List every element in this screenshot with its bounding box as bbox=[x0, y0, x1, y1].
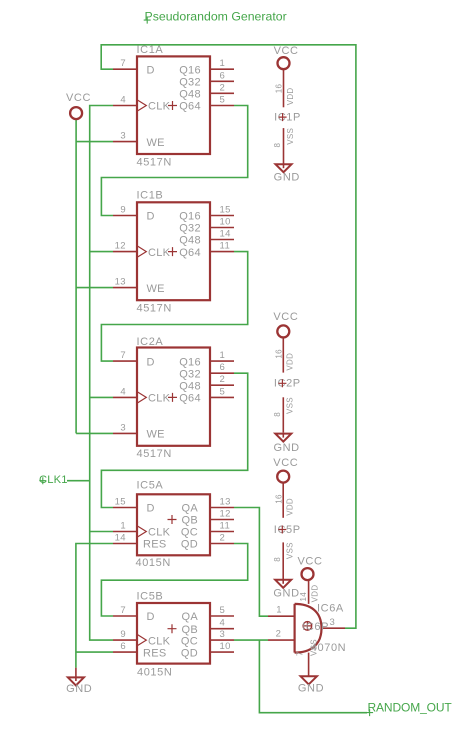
svg-text:6: 6 bbox=[220, 362, 226, 373]
svg-text:QC: QC bbox=[181, 527, 198, 539]
svg-text:16: 16 bbox=[274, 494, 283, 504]
IC5A pin 15 (D) bbox=[113, 497, 155, 515]
svg-text:VDD: VDD bbox=[286, 498, 295, 516]
svg-text:QC: QC bbox=[181, 635, 198, 647]
svg-text:Q64: Q64 bbox=[179, 247, 201, 259]
wire CLK net rail with branches bbox=[67, 106, 113, 641]
wire IC2A Q32 to IC5A D bbox=[101, 373, 247, 507]
svg-text:2: 2 bbox=[220, 82, 226, 93]
svg-text:QA: QA bbox=[182, 611, 199, 623]
IC1B pin 12 (CLK) bbox=[113, 241, 171, 259]
svg-text:13: 13 bbox=[220, 497, 231, 508]
IC6A value label 4070N bbox=[311, 642, 346, 654]
IC1A pin 6 (Q32) bbox=[179, 70, 234, 88]
power gate IC1P pin 16 (VDD) bbox=[275, 70, 295, 108]
svg-text:VCC: VCC bbox=[66, 92, 91, 104]
svg-text:3: 3 bbox=[220, 629, 226, 640]
IC2A name label bbox=[137, 336, 164, 348]
GND symbol (left rail) bbox=[66, 668, 92, 695]
IC6A pin 1 (input) bbox=[268, 605, 295, 617]
power gate IC5P pin 16 (VDD) bbox=[274, 483, 294, 518]
svg-text:RANDOM_OUT: RANDOM_OUT bbox=[368, 701, 453, 715]
svg-text:4517N: 4517N bbox=[137, 157, 172, 169]
svg-text:WE: WE bbox=[147, 283, 165, 295]
svg-text:VSS: VSS bbox=[286, 397, 295, 414]
svg-text:CLK: CLK bbox=[148, 101, 171, 113]
svg-text:5: 5 bbox=[220, 95, 226, 106]
GND symbol for IC1P bbox=[274, 164, 300, 184]
svg-text:11: 11 bbox=[220, 521, 231, 532]
svg-text:8: 8 bbox=[273, 557, 282, 562]
net label CLK1 bbox=[39, 474, 68, 486]
IC5A name label bbox=[137, 480, 164, 492]
svg-text:9: 9 bbox=[120, 205, 126, 216]
IC6A pin 7 (VSS) bbox=[295, 639, 318, 676]
IC5B pin 4 (QB) bbox=[182, 618, 235, 636]
svg-text:1: 1 bbox=[220, 58, 226, 69]
svg-text:Q16: Q16 bbox=[179, 64, 201, 76]
IC1A pin 2 (Q48) bbox=[179, 82, 234, 100]
4517 shift register IC1A: body bbox=[137, 56, 210, 154]
4517 shift register IC1B: body bbox=[137, 202, 210, 300]
svg-text:3: 3 bbox=[330, 617, 336, 628]
svg-text:D: D bbox=[147, 611, 155, 623]
IC5B pin 9 (CLK) bbox=[113, 629, 171, 647]
svg-text:2: 2 bbox=[220, 374, 226, 385]
wire IC1A Q64 to IC1B D bbox=[101, 106, 247, 216]
svg-text:15: 15 bbox=[220, 205, 231, 216]
svg-text:GND: GND bbox=[66, 683, 92, 695]
svg-text:IC1B: IC1B bbox=[137, 190, 164, 202]
power gate IC2P pin 8 (VSS) bbox=[273, 397, 295, 432]
svg-text:QD: QD bbox=[181, 539, 198, 551]
svg-text:14: 14 bbox=[115, 533, 126, 544]
svg-text:5: 5 bbox=[220, 605, 226, 616]
power gate IC1P name label bbox=[274, 111, 301, 123]
svg-text:IC1A: IC1A bbox=[137, 44, 164, 56]
svg-text:QB: QB bbox=[182, 515, 199, 527]
supply VCC for IC1P bbox=[274, 45, 299, 69]
svg-text:1: 1 bbox=[220, 350, 226, 361]
power gate IC5P name label bbox=[274, 524, 301, 536]
svg-text:7: 7 bbox=[120, 605, 126, 616]
svg-text:8: 8 bbox=[273, 143, 282, 148]
svg-text:16: 16 bbox=[275, 349, 284, 359]
svg-text:1: 1 bbox=[120, 521, 126, 532]
supply VCC for IC5P bbox=[273, 457, 298, 483]
svg-text:4015N: 4015N bbox=[137, 667, 172, 679]
svg-text:4: 4 bbox=[220, 618, 226, 629]
wire VCC rail left vertical bbox=[76, 120, 113, 434]
svg-text:Q32: Q32 bbox=[179, 223, 201, 235]
svg-text:13: 13 bbox=[115, 277, 126, 288]
svg-text:10: 10 bbox=[220, 641, 231, 652]
svg-text:IC5B: IC5B bbox=[137, 591, 164, 603]
IC2A pin 4 (CLK) bbox=[113, 386, 171, 404]
svg-text:Q64: Q64 bbox=[179, 393, 201, 405]
svg-text:GND: GND bbox=[273, 587, 299, 599]
svg-text:D: D bbox=[147, 64, 155, 76]
IC2A pin 7 (D) bbox=[113, 350, 155, 368]
svg-text:CLK: CLK bbox=[148, 393, 171, 405]
svg-text:GND: GND bbox=[273, 442, 299, 454]
svg-text:Q16: Q16 bbox=[179, 356, 201, 368]
IC5A pin 12 (QB) bbox=[182, 509, 235, 527]
svg-text:IC6A: IC6A bbox=[317, 603, 344, 615]
svg-text:IC6P: IC6P bbox=[302, 621, 329, 633]
IC1B pin 11 (Q64) bbox=[179, 241, 234, 259]
svg-text:Q64: Q64 bbox=[179, 101, 201, 113]
supply VCC for IC2P bbox=[273, 311, 298, 338]
IC5B origin cross bbox=[168, 624, 177, 633]
svg-text:IC2P: IC2P bbox=[274, 378, 301, 390]
svg-text:VDD: VDD bbox=[310, 585, 319, 603]
svg-text:6: 6 bbox=[120, 641, 126, 652]
supply VCC for IC6 bbox=[297, 556, 322, 581]
IC5A pin 2 (QD) bbox=[181, 533, 234, 551]
IC1A pin 7 (D) bbox=[113, 58, 155, 76]
IC1A value label 4517N bbox=[137, 157, 172, 169]
IC5A origin cross bbox=[168, 515, 177, 524]
4015 shift register IC5A: body bbox=[137, 494, 210, 555]
wire IC5A QA to XOR input 1 bbox=[234, 508, 268, 617]
IC6A pin 14 (VDD) bbox=[299, 581, 320, 604]
svg-text:WE: WE bbox=[147, 137, 165, 149]
svg-text:VCC: VCC bbox=[273, 457, 298, 469]
svg-text:Q48: Q48 bbox=[179, 235, 201, 247]
svg-text:7: 7 bbox=[295, 651, 304, 656]
svg-text:Q32: Q32 bbox=[179, 368, 201, 380]
power gate IC2P name label bbox=[274, 378, 301, 390]
IC1B pin 14 (Q48) bbox=[179, 229, 234, 247]
svg-text:4517N: 4517N bbox=[137, 448, 172, 460]
svg-text:QA: QA bbox=[182, 503, 199, 515]
svg-text:VDD: VDD bbox=[286, 88, 295, 106]
IC5B pin 5 (QA) bbox=[182, 605, 235, 623]
IC1A pin 5 (Q64) bbox=[179, 95, 234, 113]
svg-text:4517N: 4517N bbox=[137, 303, 172, 315]
svg-text:Q48: Q48 bbox=[179, 89, 201, 101]
IC1B value label 4517N bbox=[137, 303, 172, 315]
GND symbol for IC6 bbox=[298, 676, 324, 694]
svg-text:QD: QD bbox=[181, 647, 198, 659]
svg-text:4: 4 bbox=[120, 95, 126, 106]
IC2A pin 1 (Q16) bbox=[179, 350, 234, 368]
svg-text:7: 7 bbox=[120, 350, 126, 361]
svg-text:8: 8 bbox=[273, 412, 282, 417]
svg-text:Pseudorandom Generator: Pseudorandom Generator bbox=[145, 9, 287, 23]
svg-text:IC1P: IC1P bbox=[274, 111, 301, 123]
svg-text:VSS: VSS bbox=[286, 542, 295, 559]
svg-text:7: 7 bbox=[120, 58, 126, 69]
svg-text:RES: RES bbox=[143, 647, 167, 659]
svg-text:WE: WE bbox=[147, 429, 165, 441]
IC1B pin 9 (D) bbox=[113, 205, 155, 223]
wire GND rail bottom left bbox=[76, 544, 113, 668]
svg-text:10: 10 bbox=[220, 217, 231, 228]
IC1A origin cross bbox=[168, 101, 177, 110]
IC1B pin 10 (Q32) bbox=[179, 217, 234, 235]
IC5A pin 11 (QC) bbox=[181, 521, 234, 539]
wire IC5A QD to IC5B D bbox=[101, 544, 247, 617]
svg-text:16: 16 bbox=[275, 84, 284, 94]
svg-text:CLK: CLK bbox=[148, 635, 171, 647]
IC2A pin 3 (WE) bbox=[113, 422, 165, 440]
supply VCC (left rail) bbox=[66, 92, 91, 119]
svg-text:D: D bbox=[147, 211, 155, 223]
GND symbol for IC5P bbox=[273, 579, 299, 599]
IC6A name label bbox=[317, 603, 344, 615]
IC2A pin 2 (Q48) bbox=[179, 374, 234, 392]
svg-text:15: 15 bbox=[115, 497, 126, 508]
svg-text:9: 9 bbox=[120, 629, 126, 640]
IC2A origin cross bbox=[168, 393, 177, 402]
svg-text:VCC: VCC bbox=[274, 45, 299, 57]
svg-text:2: 2 bbox=[276, 629, 282, 640]
svg-text:4: 4 bbox=[120, 386, 126, 397]
IC1B pin 15 (Q16) bbox=[179, 205, 234, 223]
IC6A pin 2 (input) bbox=[268, 629, 295, 641]
svg-text:IC5P: IC5P bbox=[274, 524, 301, 536]
4015 shift register IC5B: body bbox=[137, 603, 210, 664]
IC2A value label 4517N bbox=[137, 448, 172, 460]
wire IC5B QC to XOR input 2 and RANDOM_OUT branch bbox=[234, 640, 367, 713]
svg-text:3: 3 bbox=[120, 422, 126, 433]
svg-text:QB: QB bbox=[182, 624, 199, 636]
svg-text:14: 14 bbox=[299, 592, 308, 602]
IC1A pin 4 (CLK) bbox=[113, 95, 171, 113]
title label "Pseudorandom Generator" bbox=[144, 9, 287, 23]
power gate IC5P pin 8 (VSS) bbox=[273, 542, 295, 579]
IC1B origin cross bbox=[168, 247, 177, 256]
svg-text:VCC: VCC bbox=[273, 311, 298, 323]
svg-text:D: D bbox=[147, 503, 155, 515]
net label RANDOM_OUT bbox=[366, 701, 452, 717]
svg-text:Q32: Q32 bbox=[179, 77, 201, 89]
power gate IC1P pin 8 (VSS) bbox=[273, 128, 295, 165]
svg-text:Q48: Q48 bbox=[179, 380, 201, 392]
svg-text:11: 11 bbox=[220, 241, 231, 252]
IC5B value label 4015N bbox=[137, 667, 172, 679]
IC5B name label bbox=[137, 591, 164, 603]
IC5A pin 13 (QA) bbox=[182, 497, 235, 515]
svg-text:GND: GND bbox=[298, 683, 324, 695]
IC1A pin 3 (WE) bbox=[113, 131, 165, 149]
svg-text:VDD: VDD bbox=[286, 353, 295, 371]
IC5A pin 14 (RES) bbox=[113, 533, 167, 551]
wire IC1B Q64 to IC2A D bbox=[101, 252, 247, 362]
svg-text:4015N: 4015N bbox=[136, 557, 171, 569]
svg-text:14: 14 bbox=[220, 229, 231, 240]
IC6A power gate name IC6P bbox=[302, 621, 329, 633]
IC2A pin 5 (Q64) bbox=[179, 386, 234, 404]
IC5B pin 6 (RES) bbox=[113, 641, 167, 659]
IC6A origin marker (circle-cross) bbox=[303, 621, 312, 630]
IC5B pin 3 (QC) bbox=[181, 629, 234, 647]
svg-text:1: 1 bbox=[276, 605, 282, 616]
IC1B name label bbox=[137, 190, 164, 202]
svg-text:IC2A: IC2A bbox=[137, 336, 164, 348]
svg-text:VSS: VSS bbox=[310, 639, 319, 656]
svg-text:2: 2 bbox=[220, 533, 226, 544]
GND symbol for IC2P bbox=[273, 432, 299, 454]
IC5B pin 10 (QD) bbox=[181, 641, 234, 659]
svg-text:VSS: VSS bbox=[286, 128, 295, 145]
power gate IC2P pin 16 (VDD) bbox=[275, 337, 295, 372]
svg-text:CLK: CLK bbox=[148, 247, 171, 259]
svg-text:12: 12 bbox=[115, 241, 126, 252]
IC1A pin 1 (Q16) bbox=[179, 58, 234, 76]
svg-text:12: 12 bbox=[220, 509, 231, 520]
IC1B pin 13 (WE) bbox=[113, 277, 165, 295]
IC5A pin 1 (CLK) bbox=[113, 521, 171, 539]
svg-text:IC5A: IC5A bbox=[137, 480, 164, 492]
IC1A name label bbox=[137, 44, 164, 56]
svg-text:Q16: Q16 bbox=[179, 211, 201, 223]
IC5A value label 4015N bbox=[136, 557, 171, 569]
svg-text:3: 3 bbox=[120, 131, 126, 142]
svg-text:VCC: VCC bbox=[297, 556, 322, 568]
svg-text:5: 5 bbox=[220, 386, 226, 397]
IC5B pin 7 (D) bbox=[113, 605, 155, 623]
svg-text:6: 6 bbox=[220, 70, 226, 81]
svg-text:CLK: CLK bbox=[148, 527, 171, 539]
wire feedback net: XOR output to IC1A D (top and right side) bbox=[101, 45, 356, 628]
svg-text:GND: GND bbox=[274, 172, 300, 184]
IC6A pin 3 (output) bbox=[321, 617, 345, 628]
4517 shift register IC2A: body bbox=[137, 348, 210, 446]
XOR gate IC6A body (4070) bbox=[295, 604, 322, 653]
svg-text:D: D bbox=[147, 356, 155, 368]
svg-text:RES: RES bbox=[143, 539, 167, 551]
IC2A pin 6 (Q32) bbox=[179, 362, 234, 380]
